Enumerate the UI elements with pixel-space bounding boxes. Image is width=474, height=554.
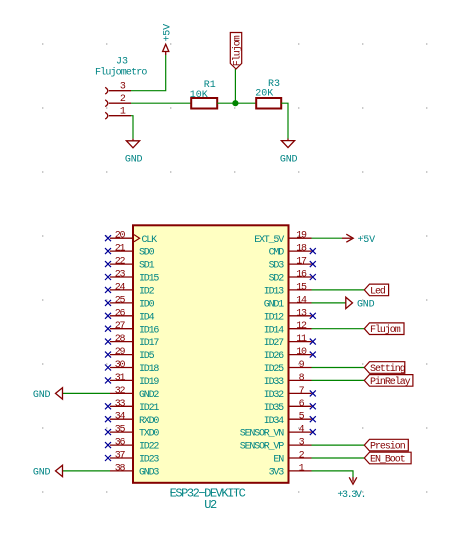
wire pin 15 to Led: [312, 289, 365, 291]
svg-text:SENSOR_VP: SENSOR_VP: [240, 442, 284, 453]
no-connect left pin 28: [105, 339, 111, 345]
wire pin 1 to +3.3V: [312, 471, 354, 477]
no-connect left pin 31: [105, 377, 111, 383]
svg-text:9: 9: [299, 360, 305, 371]
U2 left pin 35 TXD0: [110, 431, 133, 433]
svg-text:ID17: ID17: [139, 338, 159, 349]
svg-text:ID25: ID25: [264, 364, 284, 375]
no-connect right pin 6: [310, 403, 316, 409]
no-connect left pin 23: [105, 274, 111, 280]
power symbol +5V (right): [342, 237, 352, 239]
svg-text:15: 15: [296, 282, 307, 293]
svg-text:ID35: ID35: [264, 403, 284, 414]
wire pin3 to +5V: [131, 55, 166, 91]
U2 right pin 13 ID12: [289, 315, 312, 317]
svg-text:17: 17: [296, 257, 307, 268]
global label PinRelay: [364, 375, 413, 387]
U2 right pin 10 ID26: [289, 354, 312, 356]
U2 right pin 2 EN: [289, 457, 312, 459]
svg-text:+5V: +5V: [163, 24, 174, 42]
wire pin 3 to Presion: [312, 444, 365, 446]
svg-text:Presion: Presion: [370, 441, 406, 453]
svg-text:20K: 20K: [255, 88, 273, 99]
U2 left pin 24 ID2: [110, 289, 133, 291]
IC U2 ESP32-DEVKITC body: [133, 225, 289, 483]
svg-text:20: 20: [115, 231, 126, 242]
svg-text:30: 30: [115, 360, 126, 371]
U2 left pin 37 ID23: [110, 457, 133, 459]
svg-text:23: 23: [115, 270, 126, 281]
resistor R1: [191, 98, 217, 109]
svg-text:SD3: SD3: [269, 261, 285, 272]
ground symbol (right of R3): [287, 139, 289, 141]
svg-text:Setting: Setting: [370, 363, 406, 375]
U2 left pin 23 ID15: [110, 276, 133, 278]
wire pin 19 to +5V: [312, 237, 343, 239]
svg-text:ID16: ID16: [139, 325, 159, 336]
connector J3 pin 1: [105, 112, 108, 119]
power symbol GND (left, pin 32): [56, 388, 63, 399]
U2 left pin 32 GND2: [110, 392, 133, 394]
svg-text:U2: U2: [204, 498, 217, 512]
no-connect left pin 27: [105, 326, 111, 332]
svg-text:38: 38: [115, 463, 126, 474]
svg-text:GND: GND: [33, 390, 51, 401]
svg-text:ID33: ID33: [264, 377, 284, 388]
svg-text:10: 10: [296, 347, 307, 358]
svg-text:J3: J3: [116, 57, 128, 68]
wire pin 32 to GND: [63, 392, 110, 394]
no-connect left pin 22: [105, 261, 111, 267]
svg-text:21: 21: [115, 244, 126, 255]
svg-text:31: 31: [115, 373, 126, 384]
svg-text:3: 3: [299, 438, 305, 449]
svg-text:28: 28: [115, 334, 126, 345]
svg-text:ID23: ID23: [139, 455, 159, 466]
svg-text:33: 33: [115, 399, 126, 410]
wire R1 to junction: [217, 102, 235, 104]
wire R3 to GND: [281, 103, 288, 138]
svg-text:ID4: ID4: [139, 312, 155, 323]
wire junction to R3: [235, 102, 256, 104]
svg-text:SD2: SD2: [269, 274, 285, 285]
svg-text:22: 22: [115, 257, 126, 268]
svg-text:CLK: CLK: [142, 235, 158, 246]
no-connect left pin 26: [105, 313, 111, 319]
no-connect right pin 10: [310, 352, 316, 358]
U2 right pin 18 CMD: [289, 250, 312, 252]
junction node: [232, 100, 238, 106]
svg-text:TXD0: TXD0: [139, 429, 159, 440]
svg-text:12: 12: [296, 321, 307, 332]
wire pin 2 to EN_Boot: [312, 457, 365, 459]
power symbol GND (right, pin 14): [346, 297, 353, 308]
U2 right pin 12 ID14: [289, 328, 312, 330]
svg-text:24: 24: [115, 282, 126, 293]
svg-text:ID5: ID5: [139, 351, 155, 362]
no-connect right pin 13: [310, 313, 316, 319]
svg-text:GND: GND: [280, 154, 298, 165]
U2 right pin 8 ID33: [289, 379, 312, 381]
svg-text:34: 34: [115, 412, 126, 423]
no-connect right pin 16: [310, 274, 316, 280]
svg-text:4: 4: [299, 425, 305, 436]
U2 right pin 9 ID25: [289, 367, 312, 369]
wire pin 8 to PinRelay: [312, 379, 365, 381]
svg-text:1: 1: [299, 463, 305, 474]
wire pin 38 to GND: [63, 470, 110, 472]
svg-text:3V3: 3V3: [269, 468, 285, 479]
power symbol +3.3V: [352, 477, 354, 482]
svg-text:8: 8: [299, 373, 305, 384]
U2 right pin 17 SD3: [289, 263, 312, 265]
U2 left pin 34 RXD0: [110, 418, 133, 420]
ground symbol (under J3): [132, 139, 134, 141]
svg-text:19: 19: [296, 231, 307, 242]
U2 left pin 26 ID4: [110, 315, 133, 317]
svg-text:25: 25: [115, 295, 126, 306]
no-connect left pin 25: [105, 300, 111, 306]
no-connect left pin 36: [105, 442, 111, 448]
wire junction up to label: [234, 69, 236, 103]
svg-text:13: 13: [296, 308, 307, 319]
svg-text:32: 32: [115, 386, 126, 397]
no-connect right pin 11: [310, 339, 316, 345]
U2 right pin 7 ID32: [289, 392, 312, 394]
svg-text:RXD0: RXD0: [139, 416, 159, 427]
U2 left pin 25 ID0: [110, 302, 133, 304]
U2 right pin 6 ID35: [289, 405, 312, 407]
svg-text:11: 11: [296, 334, 307, 345]
U2 right pin 3 SENSOR_VP: [289, 444, 312, 446]
power symbol GND (left, pin 38): [56, 465, 63, 476]
svg-text:GND3: GND3: [139, 468, 159, 479]
svg-text:Flujom: Flujom: [232, 35, 244, 66]
no-connect right pin 5: [310, 416, 316, 422]
U2 right pin 16 SD2: [289, 276, 312, 278]
svg-text:GND: GND: [33, 468, 51, 479]
U2 right pin 4 SENSOR_VN: [289, 431, 312, 433]
svg-text:EN: EN: [273, 455, 284, 466]
svg-text:7: 7: [299, 386, 305, 397]
no-connect left pin 21: [105, 248, 111, 254]
U2 left pin 21 SD0: [110, 250, 133, 252]
connector J3 pin 2: [105, 100, 108, 107]
svg-text:37: 37: [115, 451, 126, 462]
U2 left pin 27 ID16: [110, 328, 133, 330]
svg-text:ID14: ID14: [264, 325, 284, 336]
wire pin 12 to Flujom: [312, 328, 365, 330]
svg-text:ID18: ID18: [139, 364, 159, 375]
svg-text:ID19: ID19: [139, 377, 159, 388]
svg-text:2: 2: [299, 451, 305, 462]
svg-text:ID13: ID13: [264, 287, 284, 298]
no-connect right pin 17: [310, 261, 316, 267]
U2 left pin 20 CLK: [110, 237, 133, 239]
no-connect right pin 4: [310, 429, 316, 435]
U2 left pin 30 ID18: [110, 367, 133, 369]
no-connect left pin 34: [105, 416, 111, 422]
svg-text:SENSOR_VN: SENSOR_VN: [240, 429, 284, 440]
svg-text:GND: GND: [125, 154, 143, 165]
svg-text:SD1: SD1: [139, 261, 155, 272]
svg-text:ID0: ID0: [139, 300, 155, 311]
svg-text:ID21: ID21: [139, 403, 159, 414]
svg-text:+5V: +5V: [358, 235, 376, 246]
svg-text:SD0: SD0: [139, 248, 155, 259]
svg-text:+3.3V.: +3.3V.: [337, 490, 365, 501]
svg-text:GND2: GND2: [139, 390, 159, 401]
svg-text:ID27: ID27: [264, 338, 284, 349]
global label Flujom (pin 12): [364, 323, 404, 335]
global label EN_Boot: [364, 452, 411, 464]
svg-text:26: 26: [115, 308, 126, 319]
wire pin 14 to GND: [312, 302, 346, 304]
svg-text:CMD: CMD: [269, 248, 285, 259]
U2 right pin 1 3V3: [289, 470, 312, 472]
svg-text:ID26: ID26: [264, 351, 284, 362]
no-connect left pin 37: [105, 455, 111, 461]
U2 left pin 31 ID19: [110, 379, 133, 381]
svg-text:36: 36: [115, 438, 126, 449]
svg-text:18: 18: [296, 244, 307, 255]
U2 left pin 36 ID22: [110, 444, 133, 446]
no-connect left pin 29: [105, 352, 111, 358]
global label Flujom (vertical): [230, 33, 241, 70]
svg-text:GND: GND: [357, 300, 375, 311]
power symbol +5V: [165, 51, 167, 55]
no-connect left pin 35: [105, 429, 111, 435]
wire pin2 to R1: [131, 102, 191, 104]
U2 right pin 15 ID13: [289, 289, 312, 291]
wire pin 9 to Setting: [312, 367, 365, 369]
svg-text:ID32: ID32: [264, 390, 284, 401]
svg-text:5: 5: [299, 412, 305, 423]
svg-text:16: 16: [296, 270, 307, 281]
U2 left pin 33 ID21: [110, 405, 133, 407]
svg-text:Flujometro: Flujometro: [95, 66, 147, 78]
U2 left pin 38 GND3: [110, 470, 133, 472]
svg-text:ID12: ID12: [264, 312, 284, 323]
connector J3 pin 3: [105, 87, 108, 94]
svg-text:EN_Boot: EN_Boot: [370, 455, 405, 466]
global label Presion: [364, 439, 408, 451]
U2 left pin 28 ID17: [110, 341, 133, 343]
no-connect left pin 33: [105, 403, 111, 409]
svg-text:PinRelay: PinRelay: [370, 376, 411, 388]
svg-text:6: 6: [299, 399, 305, 410]
no-connect left pin 30: [105, 365, 111, 371]
U2 right pin 14 GND1: [289, 302, 312, 304]
no-connect right pin 7: [310, 390, 316, 396]
no-connect left pin 24: [105, 287, 111, 293]
svg-text:29: 29: [115, 347, 126, 358]
resistor R3: [256, 98, 281, 109]
svg-text:GND1: GND1: [264, 300, 284, 311]
svg-text:Flujom: Flujom: [370, 324, 401, 336]
wire pin1 to GND: [131, 116, 133, 139]
svg-text:27: 27: [115, 321, 126, 332]
U2 right pin 5 ID34: [289, 418, 312, 420]
svg-text:ID15: ID15: [139, 274, 159, 285]
svg-text:14: 14: [296, 295, 307, 306]
no-connect right pin 18: [310, 248, 316, 254]
U2 right pin 19 EXT_5V: [289, 237, 312, 239]
U2 left pin 29 ID5: [110, 354, 133, 356]
svg-text:EXT_5V: EXT_5V: [254, 235, 284, 246]
no-connect left pin 20: [105, 235, 111, 241]
svg-text:ID22: ID22: [139, 442, 159, 453]
global label Setting: [364, 362, 405, 374]
svg-text:10K: 10K: [190, 90, 208, 101]
svg-text:Led: Led: [370, 285, 386, 297]
svg-text:ID34: ID34: [264, 416, 284, 427]
global label Led: [364, 284, 388, 296]
svg-text:35: 35: [115, 425, 126, 436]
U2 right pin 11 ID27: [289, 341, 312, 343]
svg-text:ID2: ID2: [139, 287, 155, 298]
U2 left pin 22 SD1: [110, 263, 133, 265]
